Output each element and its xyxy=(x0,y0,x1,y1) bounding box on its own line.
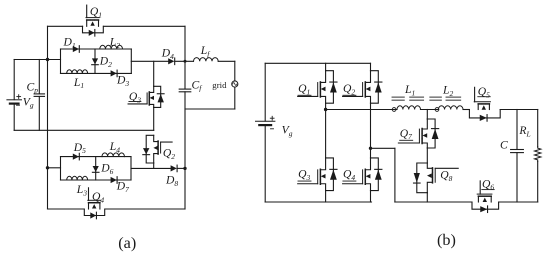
svg-text:(b): (b) xyxy=(437,231,456,249)
svg-text:grid: grid xyxy=(212,80,227,90)
svg-text:(a): (a) xyxy=(118,234,136,252)
svg-text:C: C xyxy=(500,138,508,151)
